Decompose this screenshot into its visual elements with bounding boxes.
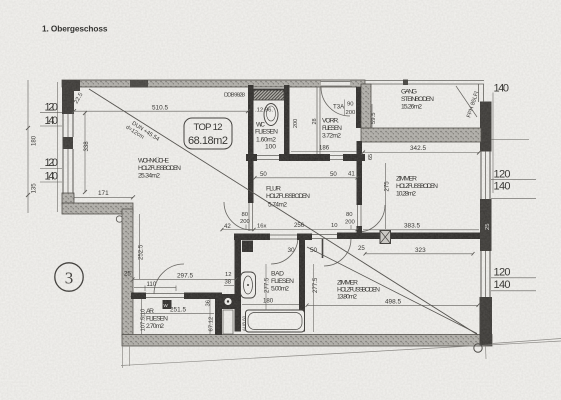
left side 120/140 labels lower — [45, 157, 59, 183]
dim 275 vertical in Zimmer 10.28 — [384, 163, 391, 229]
room label BAD — [271, 271, 294, 293]
WC bottom wall segment 2 — [279, 154, 330, 161]
middle wall band segment FLUR/BAD — [234, 234, 270, 241]
step wall vertical / AR exterior wall — [122, 209, 133, 336]
dim line FLUR top 50/50/41 — [254, 176, 359, 180]
dim line 180 in BAD — [242, 303, 299, 305]
middle wall band segment Zimmer divider east — [337, 233, 480, 240]
VORR-FLUR door threshold — [330, 156, 343, 160]
room label WOHNKUECHE — [138, 157, 181, 180]
Zimmer 10.28 door arc — [358, 205, 385, 232]
VORR right wall — [356, 87, 361, 128]
Zimmer 13.80 door leaf — [322, 239, 324, 258]
dim line 110 AR door — [134, 286, 176, 292]
dim line 510.5 — [72, 109, 250, 113]
room label VORR — [322, 118, 342, 140]
right side 120/140 labels upper — [494, 169, 511, 193]
wall below GANG — [361, 128, 481, 142]
right wall mid pier — [480, 199, 492, 251]
left wall bottom corner piece — [62, 193, 74, 204]
room label ZIMMER 10.28 — [396, 176, 438, 198]
dim 107.5/10 vertical chain AR left — [141, 299, 147, 334]
faint vertical drop at bottom right corner — [485, 346, 488, 359]
circle marker at bottom right corner — [474, 344, 482, 352]
AR door arc — [154, 264, 184, 294]
room label AR — [146, 308, 168, 330]
left window chain line — [57, 82, 59, 212]
dim 277.5 vertical in Zimmer 13.80 — [312, 264, 319, 332]
dim line 342.5 — [361, 151, 481, 155]
Zimmer 13.80 door arc — [324, 239, 351, 266]
faint line bottom right corner — [492, 339, 561, 344]
VORR entry door arc T3A — [321, 87, 350, 116]
middle wall band crossbar at BAD/Zimmer divider — [297, 234, 312, 241]
WC/VORR bottom wall segment 1 — [246, 154, 257, 161]
AR washing machine dark square — [163, 300, 172, 309]
thin double line above GANG — [365, 80, 484, 86]
room label GANG — [401, 89, 434, 111]
left wall window 1 — [63, 114, 73, 137]
left side tick lines lower — [40, 169, 62, 183]
right wall window 1 — [481, 151, 490, 199]
WC cistern — [254, 89, 285, 100]
faint line below bottom wall left to right — [121, 341, 561, 366]
room label WC — [255, 122, 278, 151]
dim line 383.5 — [363, 229, 479, 231]
left outer dimension chain — [26, 80, 30, 213]
BAD door arc — [271, 237, 298, 264]
main cross diagonal of apartment — [89, 89, 478, 335]
BAD/Zimmer 13.80 divider wall — [299, 234, 305, 332]
room label ZIMMER 13.80 — [337, 280, 380, 301]
FLUR right wall (Zimmer 10.28 divider) — [357, 141, 363, 205]
dim 36 and 67.12 vertical at AR right wall — [206, 299, 215, 334]
Zimmer 13.80 door threshold — [312, 235, 337, 239]
AR top wall segment east — [184, 293, 222, 300]
svg-text:65: 65 — [368, 154, 374, 160]
right wall thin lines above pier — [479, 84, 484, 102]
BAD left wall — [235, 234, 242, 332]
dim line 42/256/10 at y229.5 — [221, 228, 359, 231]
left side 120/140 labels upper — [45, 102, 59, 128]
exterior bottom wall — [122, 335, 492, 347]
DUN slope annotation on diagonal — [124, 119, 160, 148]
index circle 3 — [55, 263, 83, 291]
shaft dark block with circle — [221, 294, 235, 309]
right side 120/140 labels lower — [494, 267, 511, 292]
dim 277.5 vertical in BAD — [264, 264, 271, 310]
Zimmer 13.80 diagonal — [307, 247, 477, 334]
room label FLUR — [266, 186, 310, 209]
FPH leader line top right — [456, 86, 477, 117]
exterior left wall: top pier — [62, 88, 74, 114]
right wall bottom pier — [480, 297, 493, 346]
VORR bottom wall segment 3 — [343, 154, 365, 161]
pipe lines below bottom wall left end — [123, 346, 130, 368]
WC/VORR divider wall — [284, 85, 290, 155]
BAD dark square TW — [242, 241, 253, 253]
Zimmer 10.28 door threshold — [358, 205, 362, 232]
dim text T3A 90/200 — [333, 100, 356, 117]
BAD washbasin — [241, 272, 256, 298]
dim text 80/200 west door — [240, 212, 251, 229]
exterior right wall: top pier — [480, 102, 492, 152]
TOP 12 / 68.18m2 label box — [184, 118, 232, 149]
step wall horizontal — [62, 203, 133, 214]
exterior top wall — [62, 80, 365, 91]
AR top wall segment west — [131, 293, 146, 300]
left wall window 2 — [63, 149, 73, 194]
dim line 498.5 — [306, 304, 480, 308]
dim 252.5 vertical along step wall — [138, 214, 145, 279]
Wohnkueche-FLUR door threshold — [249, 203, 253, 231]
VORR entry door opening in top wall — [321, 81, 350, 87]
duct with X in middle wall — [380, 231, 391, 244]
WC door threshold — [257, 156, 279, 160]
dim text 80/200 east door — [345, 212, 356, 229]
dim line 171 — [74, 195, 135, 200]
AR right wall — [215, 297, 222, 335]
right tick line at 139 — [491, 139, 529, 141]
dim text 12/38 stacked at BAD wall top — [224, 272, 234, 286]
niche below shaft — [223, 310, 233, 334]
BAD bathtub — [246, 310, 305, 332]
right vertical dim line — [492, 93, 494, 194]
FLUR right wall lower stub — [357, 226, 363, 234]
left side tick lines upper — [40, 113, 62, 126]
left wall mid pier — [63, 137, 74, 149]
step corner circle marker — [116, 216, 122, 222]
FLUR left wall (Wohnkueche divider) — [248, 155, 254, 203]
dim line 186 (VORR width) — [291, 151, 357, 153]
BAD door threshold — [270, 235, 298, 239]
AR door threshold — [146, 294, 184, 298]
right wall window 2 — [481, 251, 490, 297]
GANG left wall — [361, 84, 371, 128]
dim 338 vertical in Wohnkueche — [83, 111, 90, 194]
dim line 297.5 — [132, 278, 238, 282]
WC toilet — [264, 104, 278, 126]
dim line 251.5 in AR — [142, 312, 214, 314]
right side tick lines lower — [491, 278, 536, 291]
dim line 323 — [364, 252, 475, 256]
right side tick lines upper — [491, 179, 536, 198]
VORR inner thin partition line — [317, 87, 320, 154]
WC left wall — [248, 85, 254, 155]
Wohnkueche-FLUR door arc — [224, 202, 252, 230]
dim 59.5 vertical — [371, 104, 377, 128]
